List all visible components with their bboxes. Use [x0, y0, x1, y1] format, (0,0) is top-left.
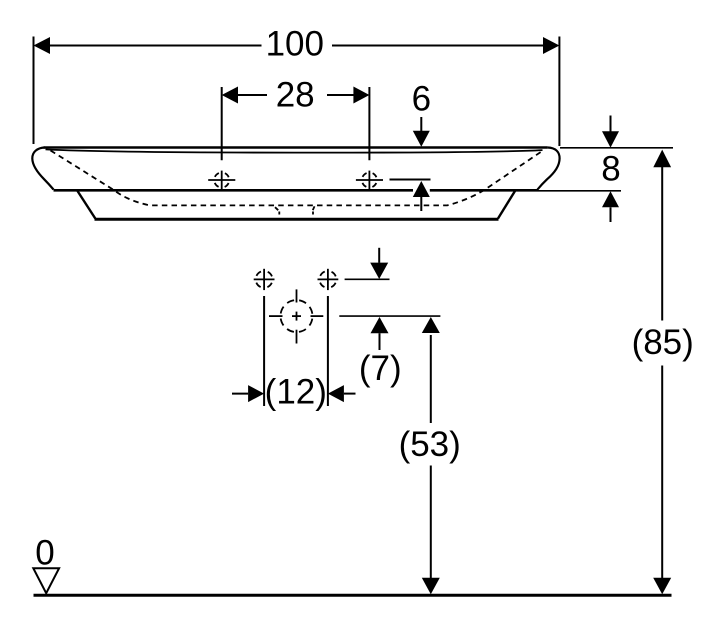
- washbasin pedestal right slant: [498, 191, 515, 219]
- dimension 6 lower arrow: [413, 181, 430, 211]
- washbasin rim inner lower edge: [46, 149, 543, 152]
- datum triangle: [33, 568, 59, 593]
- dimension 12 extension line right: [327, 296, 329, 406]
- dimension 53 line: [430, 335, 432, 578]
- dimension 28 line: [238, 94, 354, 96]
- dimension 100 arrow left: [34, 37, 51, 54]
- dimension 53 lower arrow: [422, 578, 440, 595]
- dimension 7 upper arrow: [370, 248, 388, 279]
- dimension 28 arrow right: [353, 87, 369, 104]
- hidden bowl dashed outline: [51, 151, 544, 206]
- dimension 100 extension line right: [558, 37, 560, 147]
- dimension 53 upper arrow: [422, 317, 440, 333]
- washbasin bottom edge: [95, 218, 499, 221]
- svg-text:6: 6: [412, 80, 431, 119]
- faucet hole marker left: [208, 171, 235, 190]
- dimension 85 line: [661, 167, 663, 578]
- svg-text:0: 0: [35, 534, 54, 573]
- dimension 85 lower arrow: [653, 578, 671, 595]
- dimension 28 extension line right: [368, 87, 370, 160]
- svg-text:(85): (85): [632, 323, 694, 362]
- washbasin pedestal left slant: [78, 191, 96, 219]
- dimension 100 extension line left: [33, 37, 35, 145]
- dimension 8 upper arrow: [602, 116, 619, 148]
- dimension 8 top reference line: [560, 147, 673, 149]
- dimension 100 arrow right: [543, 37, 559, 54]
- faucet hole marker right: [356, 171, 383, 190]
- dimension 8 lower arrow: [602, 191, 619, 222]
- dimension 12 extension line left: [263, 296, 265, 406]
- dimension 6 upper arrow: [413, 117, 430, 147]
- dimension 7 bottom reference line: [339, 315, 440, 317]
- floor line: [34, 594, 672, 597]
- dimension 28 extension line left: [221, 87, 223, 160]
- hidden drain tick left: [275, 207, 279, 214]
- washbasin left end curve: [32, 148, 53, 190]
- dimension 7 lower arrow: [371, 317, 389, 350]
- dimension 12 arrow left: [232, 385, 264, 402]
- svg-text:(7): (7): [359, 349, 402, 388]
- dimension 8 bottom reference line: [538, 190, 621, 192]
- dimension 12 arrow right: [328, 385, 356, 402]
- dimension 28 arrow left: [222, 87, 238, 104]
- hidden drain tick right: [313, 206, 315, 214]
- svg-text:100: 100: [266, 25, 324, 64]
- wall anchor cross right: [318, 269, 339, 290]
- svg-text:8: 8: [601, 150, 620, 189]
- washbasin right end curve: [538, 148, 560, 190]
- dimension 100 line: [50, 45, 544, 47]
- dimension 85 upper arrow: [653, 150, 671, 168]
- svg-text:(12): (12): [265, 373, 327, 412]
- washbasin rim top edge: [44, 146, 548, 149]
- washbasin underside ledge line: [54, 189, 539, 192]
- siphon center cross: [292, 312, 301, 321]
- wall anchor cross left: [254, 269, 275, 290]
- dimension 6 reference bar: [390, 179, 431, 181]
- dimension 7 top reference line: [345, 278, 390, 280]
- siphon centerline ticks: [269, 289, 323, 343]
- siphon dashed circle: [281, 300, 313, 332]
- svg-text:(53): (53): [399, 425, 461, 464]
- svg-text:28: 28: [276, 75, 315, 114]
